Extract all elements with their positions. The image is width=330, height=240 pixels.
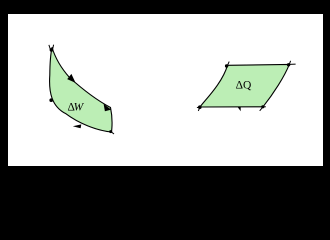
arrow on lower curve	[73, 124, 82, 128]
corner dot BR	[261, 105, 264, 108]
arrow tick on bottom edge	[237, 107, 240, 111]
top edge right stub	[289, 63, 295, 65]
state dot at bottom-right corner	[109, 130, 112, 133]
arrow on upper curve	[67, 74, 75, 83]
left edge bottom stub	[198, 107, 200, 111]
tip stub left	[49, 45, 51, 50]
bottom edge left stub	[197, 106, 200, 108]
bottom edge right stub	[263, 106, 266, 108]
T-S heat area (right parallelogram, ΔQ)	[197, 61, 296, 111]
right edge top stub	[289, 61, 290, 65]
bottom-right stub	[111, 132, 114, 134]
svg-text:ΔQ: ΔQ	[236, 80, 252, 92]
state dot at lower-left bend	[49, 98, 53, 102]
right edge bottom stub	[260, 107, 263, 111]
corner dot TR	[287, 63, 290, 66]
heat area fill	[200, 64, 289, 107]
white figure area	[8, 14, 323, 166]
left edge top stub	[228, 62, 230, 66]
svg-text:ΔW: ΔW	[68, 102, 85, 114]
arrowhead at right end of upper curve	[104, 104, 112, 111]
work area fill	[50, 48, 112, 133]
tip stub right	[52, 45, 53, 51]
state dot at tip	[50, 48, 54, 52]
p-V work area (left sail shape, ΔW)	[49, 45, 114, 134]
corner dot BL	[198, 105, 202, 109]
black canvas background	[0, 0, 330, 182]
corner dot TL	[225, 64, 228, 67]
